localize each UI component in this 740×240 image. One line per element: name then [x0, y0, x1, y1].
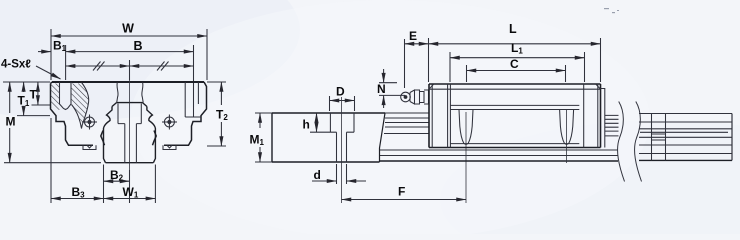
centerline	[129, 80, 131, 170]
break lines (wavy)	[618, 102, 625, 182]
hatch region B boundary	[72, 83, 89, 129]
dim F	[342, 112, 467, 203]
dim B and B1 arrow	[38, 45, 194, 117]
dim h	[310, 113, 330, 132]
block horizontals	[429, 89, 601, 143]
seal tab under left leg	[83, 145, 96, 149]
rail bolt counterbore (left view)	[118, 104, 141, 163]
right flange boss lines	[185, 82, 201, 117]
dim T1	[17, 82, 50, 116]
dim M1	[255, 113, 272, 162]
hatch region B (inner flange)	[71, 84, 89, 129]
carriage outline right half	[153, 82, 207, 145]
seal tab under right leg	[163, 145, 176, 149]
dim W	[51, 29, 207, 80]
dim L1	[450, 52, 585, 82]
dim N	[379, 69, 405, 108]
svg-text:C: C	[510, 57, 519, 71]
block internal verticals: end caps	[432, 84, 598, 148]
rail lower lines under block	[380, 150, 618, 156]
bolt bullet 2	[560, 110, 574, 145]
svg-text:h: h	[303, 118, 310, 132]
bolt bullet 1	[459, 110, 473, 145]
rail side view left segment lines	[384, 113, 429, 134]
dim D	[330, 96, 355, 111]
svg-text:M: M	[6, 115, 16, 129]
rail right end	[731, 114, 733, 161]
dim M	[4, 82, 101, 163]
dim E	[405, 39, 429, 88]
svg-text:d: d	[314, 168, 321, 182]
rail hole right segment	[652, 114, 666, 161]
grease nipple	[401, 90, 429, 104]
inner pocket walls above rail	[117, 83, 144, 103]
dim B2	[104, 165, 130, 204]
block side view body	[429, 84, 601, 148]
svg-text:W: W	[122, 22, 134, 36]
section break slant	[380, 113, 386, 162]
ball return bore right (circle with cross)	[162, 115, 177, 130]
ball return bore left (circle with cross)	[82, 115, 97, 130]
rail bolt hole section: counterbore D, depth h, hole d	[330, 113, 354, 162]
faint scanner specks	[604, 8, 619, 13]
carriage outline left half	[52, 81, 204, 83]
dim C	[467, 65, 566, 82]
left side dims: top reference tick	[3, 81, 50, 83]
dim T	[32, 82, 51, 105]
dim T2 right side	[207, 82, 226, 146]
tapped hole 4-Sxl in left flange	[60, 82, 72, 110]
svg-text:F: F	[398, 185, 405, 199]
hole centerline	[341, 97, 343, 203]
svg-text:T: T	[30, 88, 38, 102]
rail cross-section	[104, 103, 156, 163]
bullet 2 centerline	[566, 110, 568, 163]
svg-text:4-Sxℓ: 4-Sxℓ	[1, 59, 31, 71]
carriage top corner chamfers	[51, 82, 53, 84]
svg-text:N: N	[377, 82, 386, 96]
svg-text:E: E	[409, 29, 417, 43]
leader line	[36, 66, 61, 79]
dims B3 and W1	[51, 118, 155, 203]
svg-text:B: B	[133, 39, 142, 53]
svg-text:D: D	[336, 85, 345, 99]
rail right segment lines	[639, 114, 732, 154]
dim symmetric halves with // marks	[66, 60, 194, 80]
svg-text:L: L	[509, 22, 517, 36]
dim L	[429, 38, 601, 82]
rail sectioned part: outline	[272, 113, 385, 162]
hatch region A (left strip)	[51, 84, 60, 111]
dim d	[312, 164, 366, 184]
